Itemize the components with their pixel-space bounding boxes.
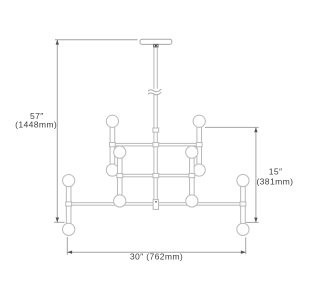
hang-straight connector under canopy bbox=[154, 44, 158, 47]
tier2 left upper bulb bbox=[114, 146, 126, 158]
tier1 left lower bulb bbox=[106, 164, 118, 176]
30in right extension line bbox=[245, 237, 247, 254]
tier1 left rod collar at arm bbox=[110, 143, 116, 147]
tier1 right candle rod bbox=[197, 127, 202, 164]
svg-text:15″: 15″ bbox=[269, 167, 283, 177]
tier2 right upper bulb bbox=[186, 146, 198, 158]
tier1 left upper bulb bbox=[106, 115, 118, 127]
tier3 right upper bulb bbox=[237, 174, 249, 186]
tier1 left candle rod bbox=[110, 127, 115, 164]
tier2 left candle rod bbox=[117, 158, 122, 195]
tier2 right lower bulb bbox=[186, 195, 198, 207]
15in bottom arrowhead bbox=[254, 218, 257, 223]
connector screw dot bbox=[155, 45, 157, 47]
stem collar at upper arm bbox=[153, 143, 159, 147]
tier3 right rod collar at arm bbox=[240, 202, 246, 206]
stem coupler above upper arm bbox=[153, 128, 159, 132]
tier1 right rod collar at arm bbox=[196, 143, 202, 147]
stem collar at middle arm bbox=[153, 173, 159, 177]
tier3 left lower bulb bbox=[63, 223, 75, 235]
30in left arrowhead bbox=[67, 251, 72, 254]
15in top arrowhead bbox=[254, 127, 257, 132]
57in dimension line bbox=[56, 40, 58, 223]
tier3 left candle rod bbox=[66, 186, 71, 223]
tier1 right lower bulb bbox=[193, 164, 205, 176]
tier2 left rod collar at arm bbox=[117, 173, 123, 177]
lower tier arm (horizontal tube) bbox=[69, 203, 243, 206]
57in bottom extension line (body bottom) bbox=[54, 221, 65, 223]
tier2 left lower bulb bbox=[114, 195, 126, 207]
tier1 right upper bulb bbox=[193, 115, 205, 127]
downrod break symbol (white gap) bbox=[150, 89, 161, 94]
30in left extension line bbox=[66, 237, 68, 255]
15in top extension line bbox=[205, 126, 259, 128]
stem screw dot bbox=[155, 201, 157, 203]
ceiling canopy bbox=[140, 39, 172, 44]
tier3 left rod collar at arm bbox=[66, 202, 72, 206]
57in top extension line (canopy top) bbox=[55, 39, 138, 41]
tier2 right rod collar at arm bbox=[189, 173, 195, 177]
middle tier arm (horizontal tube) bbox=[120, 174, 192, 177]
downrod break squiggle upper bbox=[148, 89, 161, 91]
svg-text:(1448mm): (1448mm) bbox=[15, 120, 57, 130]
57in top arrowhead bbox=[56, 40, 59, 45]
30in right arrowhead bbox=[241, 251, 246, 254]
upper tier arm (horizontal tube) bbox=[112, 143, 199, 146]
tier3 left upper bulb bbox=[63, 174, 75, 186]
tier3 right lower bulb bbox=[237, 223, 249, 235]
center stem / downrod tube bbox=[154, 47, 157, 209]
15in dimension line bbox=[255, 127, 257, 222]
tier2 right candle rod bbox=[190, 158, 195, 195]
stem bottom hub and finial bbox=[153, 200, 158, 210]
30in dimension line bbox=[67, 251, 245, 253]
57in bottom arrowhead bbox=[56, 218, 59, 223]
downrod break squiggle lower bbox=[148, 92, 161, 94]
svg-text:(381mm): (381mm) bbox=[256, 177, 293, 187]
svg-text:30″ (762mm): 30″ (762mm) bbox=[130, 252, 183, 262]
tier3 right candle rod bbox=[241, 186, 246, 223]
15in bottom extension line bbox=[246, 221, 259, 223]
